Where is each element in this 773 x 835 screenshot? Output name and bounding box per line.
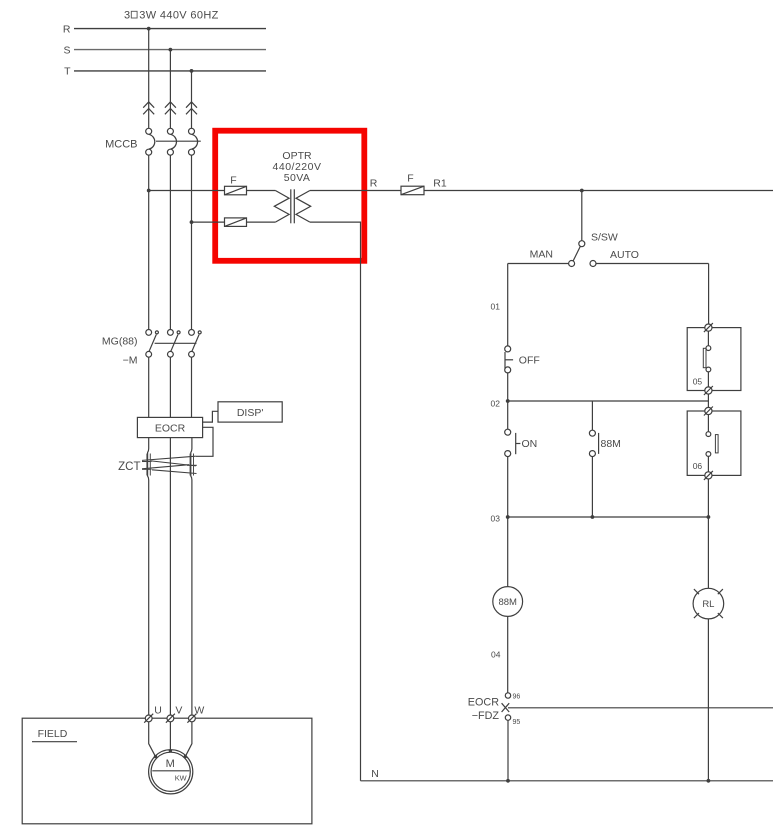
svg-text:ZCT: ZCT xyxy=(118,461,140,473)
svg-text:MG(88): MG(88) xyxy=(102,335,138,347)
svg-text:M: M xyxy=(166,758,175,770)
svg-text:KW: KW xyxy=(175,774,187,783)
svg-text:02: 02 xyxy=(491,399,501,409)
svg-text:DISP': DISP' xyxy=(237,407,264,419)
svg-text:R1: R1 xyxy=(433,177,447,189)
svg-text:88M: 88M xyxy=(498,597,517,608)
svg-text:04: 04 xyxy=(491,650,501,660)
svg-text:AUTO: AUTO xyxy=(610,249,639,261)
svg-text:03: 03 xyxy=(491,514,501,524)
svg-text:MAN: MAN xyxy=(530,248,553,260)
svg-text:06: 06 xyxy=(693,461,703,471)
svg-text:V: V xyxy=(175,704,182,716)
svg-text:50VA: 50VA xyxy=(284,172,311,184)
svg-text:MCCB: MCCB xyxy=(105,138,137,150)
svg-text:95: 95 xyxy=(513,719,521,726)
svg-text:88M: 88M xyxy=(601,438,621,450)
svg-text:−M: −M xyxy=(123,354,138,366)
svg-text:R: R xyxy=(63,23,71,35)
svg-text:T: T xyxy=(64,66,71,78)
svg-text:U: U xyxy=(154,704,162,716)
svg-text:EOCR: EOCR xyxy=(155,422,186,434)
svg-text:96: 96 xyxy=(513,693,521,700)
svg-text:05: 05 xyxy=(693,376,703,386)
svg-text:F: F xyxy=(407,173,413,185)
svg-text:S/SW: S/SW xyxy=(591,232,618,244)
svg-text:W: W xyxy=(194,704,204,716)
svg-text:R: R xyxy=(370,177,378,189)
svg-text:3: 3 xyxy=(124,9,130,21)
svg-text:F: F xyxy=(230,175,236,187)
svg-text:OPTR: OPTR xyxy=(282,150,312,162)
svg-text:3W 440V 60HZ: 3W 440V 60HZ xyxy=(139,9,218,21)
svg-text:ON: ON xyxy=(522,438,538,450)
svg-text:01: 01 xyxy=(491,301,501,311)
svg-text:RL: RL xyxy=(702,599,714,610)
svg-text:−FDZ: −FDZ xyxy=(472,710,500,722)
svg-text:OFF: OFF xyxy=(519,354,540,366)
svg-text:N: N xyxy=(371,768,379,780)
svg-text:S: S xyxy=(63,44,70,56)
svg-text:FIELD: FIELD xyxy=(38,728,68,740)
svg-text:EOCR: EOCR xyxy=(468,696,499,708)
